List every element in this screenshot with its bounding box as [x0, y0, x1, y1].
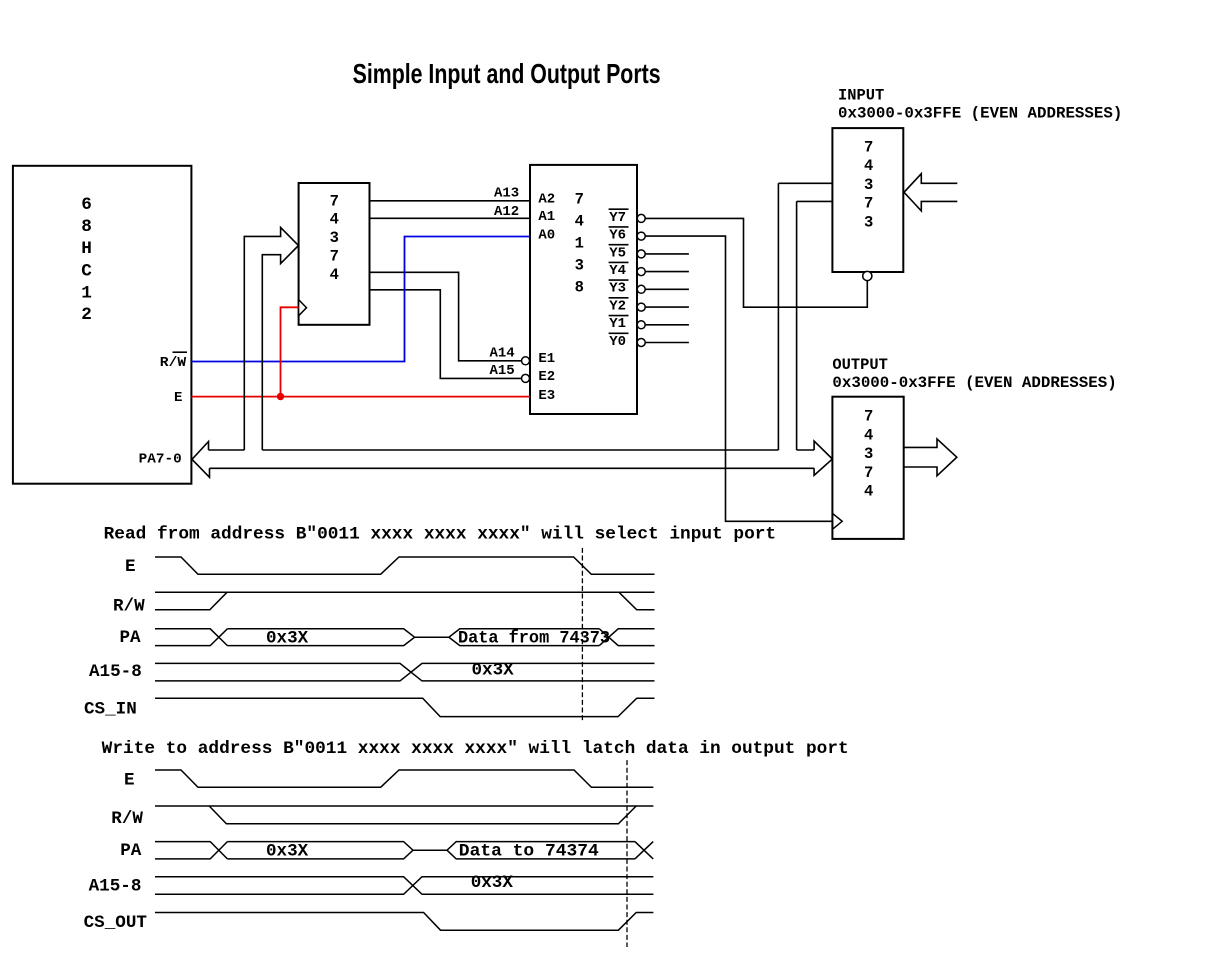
svg-text:R/W: R/W — [111, 809, 143, 829]
svg-text:0x3X: 0x3X — [266, 841, 309, 861]
74374 label text — [330, 192, 339, 284]
wire A12 — [370, 217, 531, 219]
74138 Y output labels with overlines — [609, 210, 626, 350]
wire Y2 stub — [645, 306, 689, 308]
left arrowhead into PA7-0 — [192, 442, 210, 478]
svg-text:7: 7 — [864, 195, 873, 213]
svg-text:7: 7 — [864, 464, 873, 482]
wave CS_OUT row2 — [155, 913, 653, 931]
svg-text:OUTPUT: OUTPUT — [832, 356, 887, 374]
latch 74374 (address latch) — [299, 183, 370, 325]
svg-text:A2: A2 — [538, 192, 555, 208]
wave A15-8 row2 — [155, 877, 653, 895]
svg-text:H: H — [81, 239, 92, 259]
wave R/W row2 — [155, 805, 653, 807]
svg-text:8: 8 — [81, 217, 92, 237]
pin label R/W(bar) — [160, 355, 187, 371]
svg-text:INPUT: INPUT — [838, 87, 884, 105]
74373 label text — [864, 138, 873, 231]
wire Y6 to output port clock — [645, 236, 833, 521]
svg-text:6: 6 — [81, 195, 92, 215]
svg-text:Y7: Y7 — [609, 210, 626, 226]
svg-text:3: 3 — [864, 214, 873, 232]
svg-text:3: 3 — [864, 176, 873, 194]
output header text — [832, 356, 1116, 392]
timing 1 bus value labels — [266, 628, 610, 680]
svg-text:E: E — [125, 557, 136, 577]
pin label E — [174, 390, 182, 406]
output wide arrow from 74374 — [904, 439, 957, 476]
svg-text:Simple Input and Output Ports: Simple Input and Output Ports — [353, 58, 661, 89]
svg-text:1: 1 — [575, 235, 584, 253]
svg-text:3: 3 — [575, 257, 584, 275]
74138 label text — [575, 191, 584, 297]
bus bottom line — [210, 467, 815, 469]
svg-text:PA: PA — [120, 628, 142, 648]
svg-text:E3: E3 — [538, 388, 555, 404]
svg-text:8: 8 — [575, 279, 584, 297]
svg-text:E2: E2 — [538, 369, 555, 385]
svg-text:1: 1 — [81, 283, 92, 303]
svg-text:4: 4 — [575, 213, 584, 231]
svg-text:Y4: Y4 — [609, 263, 626, 279]
junction dot — [277, 393, 284, 400]
wire Y0 stub — [645, 342, 689, 344]
wave PA row2 — [155, 842, 227, 859]
svg-text:4: 4 — [864, 426, 873, 444]
svg-text:PA: PA — [120, 841, 142, 861]
svg-text:4: 4 — [864, 482, 873, 500]
svg-text:Write to address B"0011 xxxx x: Write to address B"0011 xxxx xxxx xxxx" … — [102, 739, 849, 759]
svg-text:CS_OUT: CS_OUT — [84, 913, 148, 933]
svg-text:0x3000-0x3FFE (EVEN ADDRESSES: 0x3000-0x3FFE (EVEN ADDRESSES) — [832, 374, 1116, 392]
svg-text:A15-8: A15-8 — [89, 662, 142, 682]
pin label PA7-0 — [139, 452, 182, 468]
svg-text:0x3X: 0x3X — [266, 628, 309, 648]
svg-text:4: 4 — [330, 211, 339, 229]
wire Y3 stub — [645, 288, 689, 290]
svg-text:7: 7 — [330, 192, 339, 210]
svg-text:E: E — [174, 390, 182, 406]
svg-text:2: 2 — [81, 305, 92, 325]
wave A15-8 row1 — [155, 663, 655, 681]
svg-text:A0: A0 — [538, 228, 555, 244]
svg-text:7: 7 — [330, 248, 339, 266]
svg-text:4: 4 — [330, 266, 339, 284]
svg-text:Data to 74374: Data to 74374 — [459, 841, 599, 861]
wire Y1 stub — [645, 324, 689, 326]
svg-text:A12: A12 — [494, 204, 519, 220]
wire A15 — [370, 290, 522, 379]
timing 2 dashed cursor — [626, 760, 628, 947]
OE bubble 74373 — [863, 271, 872, 280]
timing diagram 2 header — [102, 739, 849, 759]
svg-text:0x3X: 0x3X — [471, 873, 514, 893]
latch 74373 input port — [832, 128, 903, 272]
bus channel up to input 74373 — [777, 183, 779, 450]
timing 2 signal labels — [84, 771, 148, 933]
svg-text:Y5: Y5 — [609, 245, 626, 261]
timing 1 dashed cursor — [581, 548, 583, 721]
timing 2 waveforms — [155, 770, 653, 930]
svg-text:A13: A13 — [494, 186, 519, 202]
timing diagram 1 header — [104, 524, 777, 544]
svg-text:PA7-0: PA7-0 — [139, 452, 182, 468]
74138 input pin labels — [538, 192, 555, 404]
latch 74374 output port — [832, 397, 903, 539]
E1 E2 input bubbles — [522, 357, 530, 383]
74374 output label text — [864, 408, 873, 501]
svg-text:CS_IN: CS_IN — [84, 699, 137, 719]
wire Y7 to input port OE — [645, 218, 868, 307]
svg-text:7: 7 — [864, 408, 873, 426]
svg-text:Y3: Y3 — [609, 281, 626, 297]
timing 1 signal labels — [84, 557, 145, 719]
timing 1 waveforms — [155, 557, 655, 717]
MCU 68HC12 — [13, 166, 192, 484]
wave E row2 — [155, 770, 653, 787]
svg-text:4: 4 — [864, 157, 873, 175]
PA bus outline — [192, 183, 832, 477]
74373 header text — [838, 87, 1122, 123]
clock triangle U-latch — [299, 300, 307, 316]
svg-text:7: 7 — [575, 191, 584, 209]
svg-text:7: 7 — [864, 138, 873, 156]
Y output bubbles — [637, 214, 645, 346]
svg-text:Data from 74373: Data from 74373 — [458, 628, 610, 648]
svg-text:C: C — [81, 262, 92, 282]
wire A13 — [370, 200, 531, 202]
clock triangle output port — [832, 513, 842, 529]
timing 2 bus value labels — [266, 841, 599, 893]
svg-text:A15: A15 — [490, 363, 515, 379]
svg-text:Y1: Y1 — [609, 316, 626, 332]
svg-text:Y2: Y2 — [609, 298, 626, 314]
bus channel up to latch 74374 — [244, 227, 298, 450]
wire Y5 stub — [645, 253, 689, 255]
wire A0 (blue R/W) — [191, 237, 530, 362]
svg-text:A1: A1 — [538, 209, 555, 225]
wave R/W row1 — [155, 591, 655, 593]
bus top line segments — [209, 449, 245, 451]
decoder 74138 — [530, 165, 637, 414]
svg-text:A14: A14 — [490, 345, 515, 361]
68HC12 label text — [81, 195, 92, 325]
svg-text:E1: E1 — [538, 351, 555, 367]
svg-text:R/W: R/W — [160, 355, 187, 371]
svg-text:E: E — [124, 771, 135, 791]
wire A14 — [370, 272, 522, 361]
svg-text:0x3000-0x3FFE (EVEN ADDRESSES: 0x3000-0x3FFE (EVEN ADDRESSES) — [838, 105, 1122, 123]
bus wires into 74373 from PA — [778, 182, 832, 184]
input wide arrow into 74373 — [904, 174, 957, 211]
svg-text:A15-8: A15-8 — [89, 876, 142, 896]
svg-text:Read from address B"0011 xxxx: Read from address B"0011 xxxx xxxx xxxx"… — [104, 524, 777, 544]
svg-text:Y0: Y0 — [609, 334, 626, 350]
wave CS_IN row1 — [155, 698, 655, 716]
wave PA row1 — [155, 629, 227, 646]
svg-text:0x3X: 0x3X — [472, 661, 515, 681]
svg-text:3: 3 — [864, 445, 873, 463]
wave E row1 — [155, 557, 655, 574]
wire E (red) — [191, 396, 530, 398]
red branch to latch clock — [281, 307, 299, 396]
right arrowhead into output 74374 — [814, 441, 832, 475]
wire Y4 stub — [645, 271, 689, 273]
svg-text:R/W: R/W — [113, 596, 145, 616]
svg-text:3: 3 — [330, 229, 339, 247]
svg-text:Y6: Y6 — [609, 228, 626, 244]
